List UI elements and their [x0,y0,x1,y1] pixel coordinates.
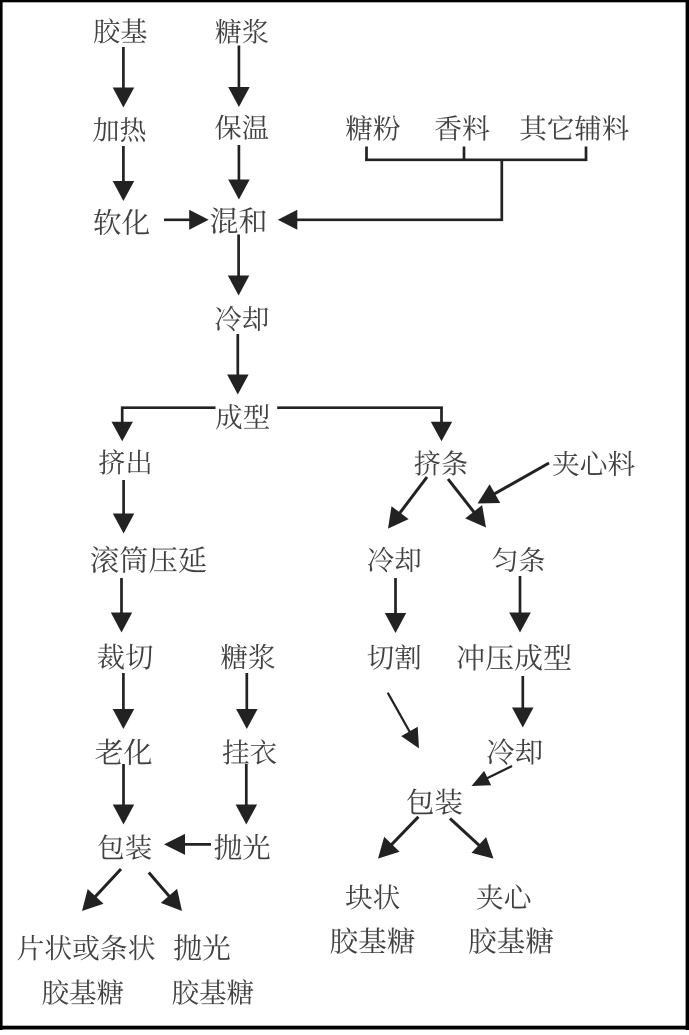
node jjt_l2: 胶基糖 [173,979,254,1005]
wire junction drop [500,160,503,221]
arrow tangjiang->baowen [228,46,250,108]
arrow yuntiao->chongya [509,576,531,633]
node tangjiang: 糖浆 [216,19,268,44]
arrow paoguang->baozhuangL [164,834,211,855]
node caiqie: 裁切 [98,644,153,670]
arrow hunhe->lengque [228,235,250,296]
node jiaoji: 胶基 [94,18,147,43]
arrow chongya->lengque3 [512,676,534,728]
node jjt_r1: 胶基糖 [331,927,415,954]
arrow guntong->caiqie [111,578,132,633]
node jiaxinliao: 夹心料 [553,451,635,476]
node xiangliao: 香料 [435,115,489,141]
node jjt_l1: 胶基糖 [43,979,124,1005]
node guayi: 挂衣 [223,739,277,764]
node lengque2: 冷却 [368,547,421,572]
arrow qiege->baozhuangR [388,693,419,749]
arrow baozhuangL->pianzhuang [82,869,121,911]
node lengque3: 冷却 [487,738,542,764]
node ruanhua: 软化 [94,209,149,235]
node chongya: 冲压成型 [457,644,570,671]
node jiaxin: 夹心 [477,884,530,909]
arrow jichu->guntong [113,480,135,534]
node yuntiao: 匀条 [492,547,544,572]
arrow jiaxinliao->in [478,463,550,504]
node baozhuangR: 包装 [407,788,462,814]
wire xiangliao stub [463,147,466,162]
arrow tangjiang2->guayi [236,673,258,729]
node chengxing: 成型 [216,404,269,429]
node laohua: 老化 [95,739,151,765]
node guntong: 滚筒压延 [91,546,206,573]
node qiege: 切割 [368,644,421,669]
node tangfen: 糖粉 [346,115,400,141]
arrow baozhuangL->paoguang2 [149,873,182,912]
node jjt_r2: 胶基糖 [469,927,553,954]
wire tangfen stub [365,147,368,162]
node baozhuangL: 包装 [98,834,151,859]
arrow split->jitiao [431,407,452,442]
arrow jitiao->lengque2 [388,477,427,529]
arrow lengque2->qiege [385,578,406,633]
arrow jitiao->yuntiao [448,479,486,528]
arrow laohua->baozhuangL [113,764,134,825]
node hunhe: 混和 [211,207,266,233]
node jitiao: 挤条 [415,450,468,475]
arrow jiaoji->jiare [113,47,135,108]
arrow ruanhua->hunhe [164,210,209,230]
arrow baozhuangR->kuaizhuang [378,817,418,859]
arrow lengque->chengxing [227,334,249,395]
wire fuliao stub [585,147,588,162]
arrow jiare->ruanhua [113,146,135,201]
arrow guayi->paoguang [236,764,258,825]
node kuaizhuang: 块状 [346,884,399,909]
node paoguang1: 抛光 [214,834,269,860]
node pianzhuang: 片状或条状 [18,935,155,961]
wire split horiz left [121,406,216,409]
arrow baozhuangR->jiaxin [450,819,494,859]
arrow baowen->hunhe [228,145,250,200]
node lengque1: 冷却 [216,306,269,331]
wire junction horiz [365,158,587,161]
node paoguang2: 抛光 [174,934,230,960]
node qita: 其它辅料 [520,115,628,140]
node jichu: 挤出 [99,449,150,474]
node baowen: 保温 [215,115,268,140]
node tangjiang2: 糖浆 [221,644,275,670]
arrow lengque3->baozhuangR [472,766,513,786]
node jiare: 加热 [93,117,145,142]
arrow caiqie->laohua [113,673,135,729]
arrow split->jichu [112,407,133,442]
wire split horiz right [277,406,443,409]
arrow junction->hunhe [278,210,502,230]
